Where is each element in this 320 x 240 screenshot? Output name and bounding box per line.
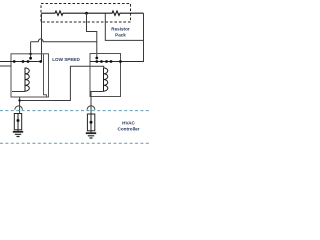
connector dome right [87, 106, 95, 110]
HVAC controller bus dashed top [0, 110, 150, 112]
ground left [17, 130, 19, 131]
wire V1 left feed down to low speed relay [41, 13, 43, 61]
svg-text:Controller: Controller [118, 127, 140, 132]
wire coil bottom drop high relay [91, 92, 104, 115]
wire H1 with hop over V1 [31, 39, 97, 42]
ground right [90, 131, 92, 133]
wire main feed with resistors R1 R2 [42, 11, 144, 15]
node row terminals low relay [13, 60, 16, 63]
fuse left [14, 114, 21, 130]
svg-text:Pack: Pack [115, 32, 126, 37]
svg-text:HVAC: HVAC [122, 120, 135, 125]
relay box high speed [90, 54, 121, 97]
wire low relay drop to fuse [19, 97, 21, 114]
wire low relay switched leg [44, 54, 47, 97]
svg-text:LOW SPEED: LOW SPEED [52, 57, 80, 62]
connector dome left [15, 106, 23, 110]
node high relay armature [95, 57, 98, 60]
wire H1 corner down to low relay common [30, 42, 32, 58]
relay box low speed [11, 54, 49, 97]
node low relay top-edge junction [29, 53, 31, 55]
coil high relay [104, 68, 108, 92]
wire left edge entry [0, 65, 11, 67]
wire tap1 jog to high relay common [87, 13, 97, 58]
wire ground bus jumper [20, 66, 90, 100]
wire coil bottom to box edge [12, 91, 25, 93]
node jumper junction [18, 99, 20, 101]
coil low relay [25, 68, 29, 92]
wire coil entry high relay [90, 66, 104, 68]
node row terminals high relay [95, 60, 98, 63]
HVAC controller bus dashed bottom [0, 142, 150, 144]
wire tap2 to right bus [105, 13, 143, 40]
wire right end down to relay row [121, 13, 144, 61]
node tap1 [85, 12, 88, 15]
node low relay armature [29, 57, 32, 60]
wire low relay contact row [0, 61, 41, 63]
svg-text:Resistor: Resistor [111, 26, 130, 31]
fuse right [87, 114, 94, 131]
resistor pack dashed enclosure [41, 4, 131, 23]
wire high relay contact row [90, 61, 144, 63]
